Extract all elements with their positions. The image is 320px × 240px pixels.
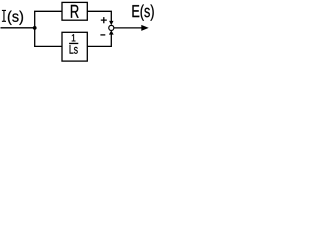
plus sign [101, 17, 107, 23]
wire output from summing junction [114, 27, 142, 29]
block 1/Ls fraction bar [69, 42, 78, 44]
block 1/Ls denominator Ls [70, 45, 78, 54]
block R label [71, 5, 79, 18]
block R box [62, 2, 87, 20]
wire vertical branch split [34, 11, 36, 46]
summing junction circle [109, 25, 114, 30]
wire from R to summing junction (down arrow) [87, 11, 111, 21]
block 1/Ls box [62, 32, 87, 61]
wire to 1/Ls block input [34, 45, 62, 47]
node E(s) output label [132, 4, 153, 20]
node I(s) input label capital I with bars [2, 10, 6, 21]
arrowhead output E(s) [141, 25, 148, 31]
wire to R block input [34, 10, 62, 12]
node junction dot [33, 26, 37, 30]
wire input horizontal from I(s) to junction [1, 27, 35, 29]
arrowhead down into summing junction [109, 21, 113, 25]
wire from 1/Ls to summing junction (up arrow) [87, 33, 111, 46]
minus sign [100, 34, 105, 36]
arrowhead up into summing junction [109, 30, 114, 34]
block 1/Ls numerator 1 [72, 34, 76, 41]
node I(s) input label parens s [8, 11, 23, 25]
